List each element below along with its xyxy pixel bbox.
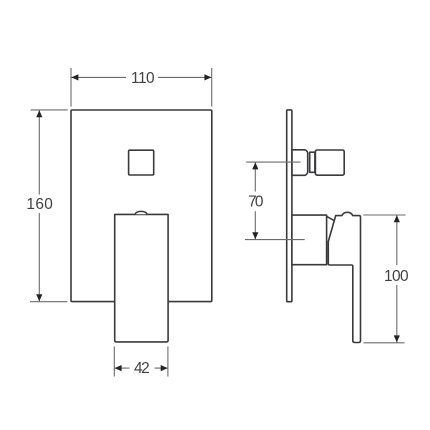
arrowhead 160 up	[36, 110, 42, 117]
dimension 110 line	[71, 76, 211, 78]
label 160	[26, 196, 53, 213]
dimension 100 extension lines	[363, 215, 405, 343]
dimension 70 line	[254, 162, 256, 239]
label 100	[384, 268, 409, 285]
arrowhead 70 down	[252, 232, 258, 239]
diverter knob ring (side)	[310, 152, 315, 172]
handle lever (front)	[115, 211, 168, 342]
arrowhead 42 left	[115, 365, 122, 371]
dimension 110 extension lines	[71, 68, 212, 107]
svg-text:110: 110	[131, 70, 155, 87]
dimension 42 extension lines	[114, 346, 168, 376]
mixer body (side)	[292, 215, 327, 265]
svg-text:70: 70	[248, 194, 263, 211]
arrowhead 100 up	[394, 215, 400, 222]
diverter button square (front)	[129, 150, 154, 175]
svg-text:42: 42	[134, 360, 150, 377]
side wall plate	[287, 110, 292, 302]
dimension 100 line	[396, 215, 398, 342]
dimension 70 extension lines	[245, 162, 305, 240]
dimension 160 line	[38, 110, 40, 301]
arrowhead 70 up	[252, 162, 258, 169]
svg-text:100: 100	[384, 268, 409, 285]
arrowhead 110 right	[204, 74, 211, 80]
label 70	[248, 194, 263, 211]
arrowhead 110 left	[71, 74, 78, 80]
front wall plate	[71, 110, 212, 302]
label 42	[134, 360, 150, 377]
diverter knob outer cap (side)	[315, 150, 344, 175]
arrowhead 42 right	[161, 365, 168, 371]
dimension 42 line	[115, 367, 168, 369]
arrowhead 160 down	[36, 294, 42, 301]
dimension 160 extension lines	[30, 110, 68, 302]
handle lever (side)	[328, 212, 360, 342]
svg-text:160: 160	[26, 196, 53, 213]
diverter knob inner segment (side)	[292, 150, 308, 176]
arrowhead 100 down	[394, 335, 400, 342]
handle hub wedge line (side)	[326, 216, 334, 221]
label 110	[131, 70, 155, 87]
